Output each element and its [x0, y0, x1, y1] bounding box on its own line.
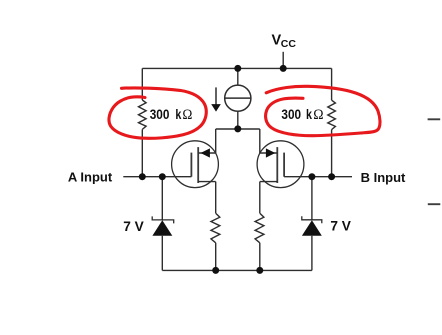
wire B input line: [284, 176, 352, 178]
wire current source top: [237, 68, 239, 85]
svg-text:Ω: Ω: [313, 107, 323, 123]
current source I1 circle: [225, 85, 251, 111]
junction dot node A zener: [159, 173, 166, 180]
transistor Q2 source lead: [260, 181, 278, 183]
wire zener D2 anode top: [311, 177, 313, 220]
wire drain rail: [216, 128, 260, 130]
svg-text:CC: CC: [281, 38, 297, 50]
resistor R2 300k right zigzag: [328, 100, 336, 129]
junction dot current source top: [234, 65, 241, 72]
transistor Q1 gate bar: [190, 153, 192, 177]
transistor Q2 drain lead: [260, 152, 278, 154]
wire zener D1 anode top: [161, 177, 163, 220]
transistor Q2 circle: [257, 141, 304, 188]
svg-text:300: 300: [281, 107, 301, 122]
arrow current direction head: [211, 104, 221, 112]
current source I1 bar: [225, 97, 251, 99]
svg-text:B Input: B Input: [361, 170, 406, 185]
transistor Q1 circle: [172, 141, 219, 188]
resistor R4 tail right zigzag: [255, 213, 264, 243]
wire current source bottom: [237, 111, 239, 129]
svg-text:A Input: A Input: [68, 170, 113, 185]
arrow current direction line: [215, 87, 217, 104]
svg-text:7 V: 7 V: [330, 219, 351, 234]
wire right rail lower: [331, 130, 333, 177]
wire zener D1 bottom: [161, 236, 163, 271]
zener D2 triangle: [302, 220, 322, 236]
wire left drain vertical: [215, 129, 217, 153]
resistor R1 300k left zigzag: [139, 100, 147, 129]
zener D1 cathode bar: [152, 216, 174, 223]
wire resistor R3 top: [215, 182, 217, 214]
zener D1 triangle: [152, 220, 172, 236]
annotation red circle right: [266, 86, 380, 135]
wire A input line: [123, 176, 191, 178]
svg-text:300: 300: [150, 107, 170, 122]
wire Vcc stub: [282, 52, 284, 69]
wire top rail: [142, 67, 331, 69]
junction dot bottom rail left: [212, 267, 219, 274]
junction dot node B right rail: [328, 173, 335, 180]
zener D2 cathode bar: [302, 216, 322, 223]
junction dot Vcc node: [280, 65, 287, 72]
wire zener D2 bottom: [311, 236, 313, 271]
wire left rail lower: [141, 129, 143, 176]
wire resistor R4 top: [259, 182, 261, 214]
text dash right margin lower: [428, 203, 441, 205]
text dash right margin upper: [428, 118, 441, 120]
transistor Q1 source lead: [198, 181, 216, 183]
junction dot current source bottom: [234, 125, 241, 132]
wire resistor R4 bottom: [259, 243, 261, 271]
svg-text:k: k: [306, 107, 312, 122]
wire bottom rail: [162, 269, 312, 271]
svg-text:7 V: 7 V: [123, 219, 144, 234]
transistor Q1 arrowhead: [201, 148, 210, 157]
transistor Q2 channel bar: [276, 147, 278, 183]
svg-text:k: k: [175, 107, 181, 122]
wire resistor R3 bottom: [215, 243, 217, 271]
junction dot bottom rail right: [256, 267, 263, 274]
wire left rail upper: [141, 68, 143, 100]
transistor Q2 arrowhead: [266, 148, 275, 157]
transistor Q1 channel bar: [197, 147, 199, 183]
svg-text:Ω: Ω: [182, 107, 192, 123]
wire right rail upper: [331, 68, 333, 100]
annotation red circle left: [109, 88, 206, 138]
transistor Q1 drain lead: [198, 152, 216, 154]
junction dot node B zener: [308, 173, 315, 180]
wire right drain vertical: [259, 129, 261, 153]
transistor Q2 gate bar: [283, 153, 285, 177]
resistor R3 tail left zigzag: [211, 213, 220, 243]
junction dot node A left rail: [139, 173, 146, 180]
